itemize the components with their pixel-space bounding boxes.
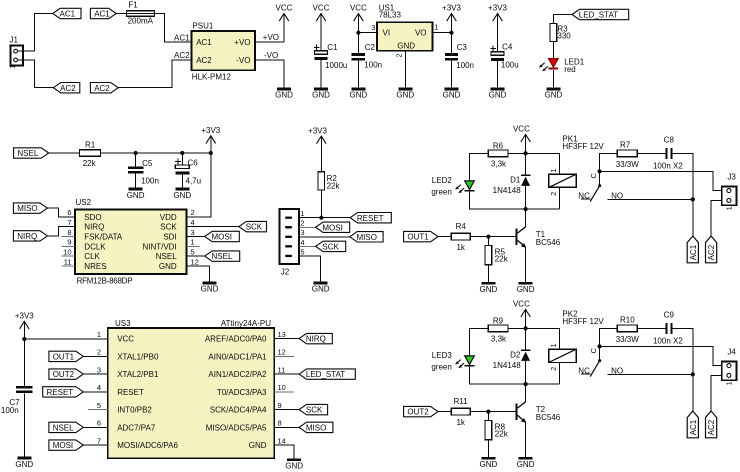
net tag MOSI (US2) (205, 231, 240, 241)
svg-text:R4: R4 (456, 222, 467, 231)
svg-text:AC2: AC2 (707, 419, 716, 435)
resistor R8 (485, 421, 509, 440)
resistor R10 (616, 316, 640, 344)
svg-text:+3V3: +3V3 (15, 312, 34, 321)
svg-text:6: 6 (97, 419, 101, 428)
wire OUT1 to pin2 (83, 355, 108, 357)
node R2-RESET (319, 216, 323, 220)
wire R9 to LED3 (470, 328, 489, 356)
ground (C1) (312, 88, 330, 100)
net tag SCK (US3) (299, 404, 328, 414)
svg-text:3: 3 (191, 228, 195, 237)
svg-text:AC1: AC1 (174, 33, 190, 42)
relay contact C (PK2) (589, 346, 601, 362)
pin 1 (US2 NINT/VDI) (142, 238, 199, 252)
svg-text:RESET: RESET (47, 388, 74, 397)
wire R1 rail (101, 152, 211, 154)
node base-R8 (486, 410, 490, 414)
capacitor C4 (490, 42, 518, 69)
pin 8 (US3 MISO/ADC5/PA5) (206, 419, 282, 433)
wire pin9 to SCK (274, 409, 299, 411)
svg-text:+3V3: +3V3 (201, 126, 220, 135)
diode D2 1N4148 (493, 328, 531, 384)
svg-text:1: 1 (551, 168, 558, 172)
svg-text:C2: C2 (365, 43, 376, 52)
pin 2 (US2 VDD) (160, 208, 195, 222)
svg-text:VO: VO (415, 29, 427, 38)
node VCC junction (356, 31, 360, 35)
svg-text:AC2: AC2 (707, 244, 716, 260)
svg-text:8: 8 (67, 228, 71, 237)
power +3V3 (C4) (488, 4, 507, 52)
svg-text:GND: GND (249, 441, 267, 450)
svg-text:9: 9 (278, 401, 282, 410)
wire J4 pin2 to AC2 (711, 375, 722, 411)
net tag NSEL (US2) (205, 251, 240, 261)
svg-text:MOSI: MOSI (212, 233, 232, 242)
svg-text:NIRQ: NIRQ (84, 223, 104, 232)
svg-text:MISO: MISO (17, 204, 37, 213)
svg-text:PSU1: PSU1 (192, 22, 213, 31)
svg-text:VI: VI (383, 29, 391, 38)
svg-text:-VO: -VO (236, 56, 250, 65)
net tag MISO (US2) (13, 203, 47, 213)
svg-text:22k: 22k (495, 429, 509, 438)
wire R6 to VCC node (508, 152, 525, 154)
svg-text:SCK: SCK (322, 242, 339, 251)
power VCC (C2) (350, 4, 367, 54)
power +3V3 (US3) (15, 312, 34, 339)
wire C6 to GND (181, 174, 183, 187)
svg-text:MOSI: MOSI (322, 223, 342, 232)
wire US1 VO to +3V3 (433, 32, 452, 34)
svg-text:100n X2: 100n X2 (653, 162, 683, 171)
wire coil pin1 (PK2) (526, 328, 560, 349)
capacitor C7 (1, 386, 33, 415)
net label AC2 (174, 51, 190, 60)
node base-R5 (486, 235, 490, 239)
wire NO to AC1 tag (692, 374, 694, 411)
pin 9 (US3 SCK/ADC4/PA4) (210, 401, 282, 415)
ground (C4) (489, 88, 507, 100)
pin 5 (US3 INT0/PB2) (88, 401, 152, 415)
svg-text:C8: C8 (664, 135, 675, 144)
svg-text:VCC: VCC (276, 4, 293, 13)
wire R8 to GND (487, 440, 489, 457)
pin 6 (US2 SDO) (67, 208, 101, 222)
svg-text:4: 4 (300, 238, 304, 247)
LED3 emission arrows (456, 360, 464, 368)
svg-text:VCC: VCC (513, 125, 530, 134)
svg-text:NSEL: NSEL (17, 149, 38, 158)
power module PSU1 HLK-PM12 (192, 22, 256, 82)
svg-text:HF3FF 12V: HF3FF 12V (562, 142, 604, 151)
ground (C6) (173, 188, 191, 200)
svg-text:22k: 22k (495, 254, 509, 263)
svg-text:100n X2: 100n X2 (653, 337, 683, 346)
svg-text:red: red (564, 65, 576, 74)
wire US2 GND to ground (187, 266, 210, 282)
wire VCC to US1 VI (358, 32, 377, 34)
svg-text:XTAL1/PB0: XTAL1/PB0 (117, 352, 159, 361)
svg-text:AIN1/ADC2/PA2: AIN1/ADC2/PA2 (208, 370, 267, 379)
wire R9 to VCC node (508, 327, 525, 329)
node NO-J4 (691, 372, 695, 376)
svg-text:NO: NO (611, 191, 623, 200)
wire common to J4 pin1 (600, 346, 722, 365)
wire NO to AC1 tag (692, 199, 694, 236)
ground (US3) (285, 458, 303, 470)
svg-text:C4: C4 (502, 42, 513, 51)
capacitor C8 (653, 135, 683, 170)
wire F1 to PSU1 AC1 (155, 14, 192, 43)
svg-text:C6: C6 (188, 159, 199, 168)
svg-text:NINT/VDI: NINT/VDI (142, 242, 176, 251)
net tag NIRQ (US3) (299, 333, 332, 343)
svg-text:J3: J3 (727, 172, 736, 181)
svg-text:LED_STAT: LED_STAT (579, 11, 618, 20)
wire AC1 tag to F1 (116, 13, 126, 15)
svg-text:100u: 100u (501, 61, 519, 70)
svg-text:12: 12 (191, 257, 199, 266)
svg-text:5: 5 (300, 247, 304, 256)
wire R5 stem (487, 237, 489, 246)
svg-text:R11: R11 (454, 397, 469, 406)
wire C6 stem (181, 153, 183, 165)
svg-text:8: 8 (278, 419, 282, 428)
IC US2 RFM12B-868DP box (75, 198, 187, 285)
svg-text:AC1: AC1 (94, 10, 110, 19)
wire US2 NSEL to tag (187, 255, 205, 257)
svg-text:MISO: MISO (306, 423, 326, 432)
net tag MOSI (US3) (49, 440, 83, 450)
svg-text:GND: GND (489, 91, 507, 100)
svg-text:RESET: RESET (357, 214, 384, 223)
connector J1 (10, 36, 24, 69)
svg-text:VCC: VCC (513, 300, 530, 309)
pin 2 (US3 XTAL1/PB0) (97, 348, 159, 362)
relay contact NC (PK2) (578, 366, 590, 375)
svg-text:LED3: LED3 (432, 351, 453, 360)
IC US3 ATtiny24A-PU box (108, 319, 274, 458)
svg-text:C3: C3 (457, 43, 468, 52)
pin 3 (US2 SDI) (163, 228, 194, 242)
svg-text:11: 11 (278, 365, 286, 374)
pin 11 (US3 AIN1/ADC2/PA2) (208, 365, 285, 379)
svg-text:7: 7 (97, 436, 101, 445)
svg-text:VCC: VCC (313, 4, 330, 13)
net tag AC1 (left) (53, 8, 81, 18)
svg-text:OUT2: OUT2 (407, 408, 429, 417)
net tag MOSI (J2) (316, 222, 350, 232)
wire J2 pin4 stub (299, 245, 316, 247)
wire NIRQ to US2 NIRQ (47, 227, 75, 236)
svg-text:+3V3: +3V3 (488, 4, 507, 13)
capacitor C9 (653, 310, 683, 345)
svg-text:NO: NO (611, 366, 623, 375)
wire NSEL to R1 (49, 152, 80, 154)
svg-text:GND: GND (159, 262, 177, 271)
wire C3 to GND (451, 61, 453, 88)
svg-text:2: 2 (300, 219, 304, 228)
svg-text:R10: R10 (620, 316, 635, 325)
svg-text:R1: R1 (85, 140, 96, 149)
net tag LED_STAT (top) (572, 9, 629, 19)
node contact common (PK2) (597, 344, 601, 348)
svg-text:GND: GND (312, 91, 330, 100)
wire contact common rail (PK1) (600, 153, 618, 171)
svg-text:SDO: SDO (84, 213, 101, 222)
wire R5 to GND (487, 265, 489, 282)
wire C7 stem (23, 339, 25, 386)
svg-text:GND: GND (173, 191, 191, 200)
pin 1 (J2) (300, 209, 304, 218)
svg-text:GND: GND (127, 191, 145, 200)
net tag NIRQ (US2) (13, 231, 47, 241)
svg-text:C9: C9 (664, 310, 675, 319)
svg-text:1N4148: 1N4148 (493, 186, 522, 195)
wire C2 to GND (357, 61, 359, 88)
node +3V3 junction (449, 31, 453, 35)
power +3V3 (RF rail) (201, 126, 220, 153)
ground (US2) (201, 282, 219, 294)
svg-text:J2: J2 (281, 268, 290, 277)
wire C8 to NO node (673, 153, 693, 199)
pin 9 (US2 DCLK) (61, 238, 106, 252)
capacitor C2 (352, 43, 382, 70)
net tag AC1 (J4) (687, 411, 698, 438)
svg-text:GND: GND (480, 460, 498, 469)
wire R10 to C9 (637, 327, 665, 329)
wire common to J3 pin1 (600, 171, 722, 190)
svg-text:-VO: -VO (264, 51, 278, 60)
resistor R9 (488, 316, 508, 343)
svg-text:D2: D2 (510, 350, 521, 359)
svg-text:C1: C1 (327, 43, 338, 52)
node rail-T2 (524, 382, 528, 386)
svg-text:GND: GND (285, 462, 303, 471)
net tag SCK (US2) (239, 221, 267, 231)
svg-text:OUT1: OUT1 (53, 352, 75, 361)
svg-text:OUT1: OUT1 (407, 233, 429, 242)
node VCC-D1 (524, 151, 528, 155)
wire +3V3 to US2 VDD (187, 153, 211, 217)
wire coil pin2 (PK2) (559, 362, 561, 384)
svg-text:10: 10 (63, 248, 71, 257)
svg-text:10: 10 (278, 383, 286, 392)
svg-text:CLK: CLK (84, 252, 100, 261)
svg-text:AC1: AC1 (196, 38, 212, 47)
LED2 emission arrows (456, 185, 464, 193)
pin 4 (J2) (300, 238, 304, 247)
power VCC (T2 section) (513, 300, 530, 329)
svg-text:VCC: VCC (117, 335, 134, 344)
svg-text:SCK/ADC4/PA4: SCK/ADC4/PA4 (210, 406, 267, 415)
svg-text:R6: R6 (493, 141, 504, 150)
pin 6 (US3 ADC7/PA7) (97, 419, 156, 433)
wire J2 pin5 to GND (299, 256, 321, 282)
svg-text:1N4148: 1N4148 (493, 361, 522, 370)
svg-text:1: 1 (97, 330, 101, 339)
wire J2 pin3 to MISO (299, 236, 350, 238)
transistor T2 BC546 (516, 402, 561, 423)
wire pin11 to LED_STAT (274, 373, 299, 375)
wire R7 to C8 (637, 152, 665, 154)
pin 3 (US1 VI) (371, 23, 375, 32)
node NO-J3 (691, 197, 695, 201)
svg-text:GND: GND (201, 285, 219, 294)
wire US3 GND to ground (274, 445, 294, 458)
svg-text:C: C (589, 348, 598, 354)
svg-text:NRES: NRES (84, 262, 106, 271)
svg-text:SDI: SDI (163, 233, 176, 242)
net label +VO (263, 33, 279, 42)
relay contact arm (PK2) (590, 361, 600, 377)
wire T1 collector (525, 209, 527, 227)
svg-text:SCK: SCK (160, 223, 177, 232)
LED1 emission arrows (539, 63, 547, 71)
svg-text:R9: R9 (493, 316, 504, 325)
net tag AC2 (J3) (706, 236, 717, 263)
svg-text:GND: GND (312, 285, 330, 294)
svg-text:BC546: BC546 (536, 413, 561, 422)
ground (T1) (517, 282, 535, 294)
relay contact NO (PK1) (607, 191, 692, 200)
svg-text:22k: 22k (327, 182, 341, 191)
svg-text:1: 1 (727, 381, 734, 385)
pin 1 (US3 VCC) (97, 330, 134, 344)
svg-text:ADC7/PA7: ADC7/PA7 (117, 423, 156, 432)
svg-text:+VO: +VO (234, 38, 250, 47)
svg-text:OUT2: OUT2 (53, 370, 75, 379)
net tag AC1 (J3) (687, 236, 698, 263)
svg-text:1: 1 (300, 209, 304, 218)
svg-text:2: 2 (191, 208, 195, 217)
svg-text:INT0/PB2: INT0/PB2 (117, 406, 152, 415)
wire OUT1 to R4 (438, 236, 451, 238)
svg-text:MISO: MISO (357, 233, 377, 242)
pin 7 (US2 NIRQ) (67, 218, 104, 232)
power +3V3 (C3) (442, 4, 461, 54)
power VCC (T1 section) (513, 125, 530, 154)
node contact common (PK1) (597, 169, 601, 173)
relay contact C (PK1) (589, 171, 601, 187)
wire +3V3 to US3 VCC (24, 338, 108, 340)
svg-text:100n: 100n (1, 406, 19, 415)
svg-text:HF3FF 12V: HF3FF 12V (562, 317, 604, 326)
pin 2 (J2) (300, 219, 304, 228)
svg-text:BC546: BC546 (536, 238, 561, 247)
svg-text:6: 6 (67, 208, 71, 217)
net tag OUT2 (404, 406, 438, 416)
relay contact arm (PK1) (590, 186, 600, 202)
pin 1 (US1 VO) (434, 22, 438, 31)
net tag LED_STAT (US3) (299, 369, 355, 379)
svg-text:AC2: AC2 (174, 51, 190, 60)
svg-text:green: green (431, 362, 451, 371)
svg-text:33/3W: 33/3W (616, 335, 640, 344)
wire contact common rail (PK2) (600, 328, 618, 346)
svg-text:FSK/DATA: FSK/DATA (84, 233, 123, 242)
svg-text:GND: GND (15, 460, 33, 469)
wire C9 to NO node (673, 328, 693, 374)
ground (US1) (396, 88, 414, 100)
capacitor C3 (445, 43, 474, 70)
svg-text:AC1: AC1 (60, 10, 76, 19)
svg-text:+3V3: +3V3 (308, 126, 327, 135)
regulator US1 78L33 (377, 4, 433, 51)
ground (C5) (127, 188, 145, 200)
svg-text:2: 2 (97, 348, 101, 357)
svg-text:VCC: VCC (350, 4, 367, 13)
wire OUT2 to pin3 (83, 373, 108, 375)
wire US1 GND to ground (404, 51, 406, 88)
pin 12 (US3 AIN0/ADC1/PA1) (208, 348, 294, 362)
connector J4 (722, 347, 737, 385)
pin 5 (US2 NSEL) (156, 248, 195, 262)
net tag MISO (US3) (299, 422, 333, 432)
wire coil pin1 (PK1) (526, 153, 560, 174)
svg-text:VDD: VDD (160, 213, 177, 222)
resistor R1 (80, 140, 101, 168)
svg-text:GND: GND (517, 460, 535, 469)
ground (T2) (517, 457, 535, 469)
net tag OUT2 (US3) (49, 369, 83, 379)
svg-text:1: 1 (10, 65, 17, 69)
svg-text:100n: 100n (456, 61, 474, 70)
LED LED1 red (549, 57, 585, 73)
wire C4 to GND (497, 61, 499, 87)
power VCC (PSU) (276, 4, 293, 42)
svg-text:AC2: AC2 (60, 84, 76, 93)
node rail-3V3 (209, 151, 213, 155)
wire C1 to GND (320, 60, 322, 88)
net tag OUT1 (404, 231, 438, 241)
svg-text:13: 13 (278, 330, 286, 339)
svg-text:100n: 100n (141, 176, 159, 185)
svg-text:SCK: SCK (246, 223, 263, 232)
pin 4 (US3 RESET) (97, 383, 144, 397)
resistor R3 (550, 24, 571, 42)
ground (J2) (312, 282, 330, 294)
power VCC (C1) (313, 4, 330, 51)
svg-text:MOSI: MOSI (53, 441, 73, 450)
ground (C7) (15, 457, 33, 469)
resistor R7 (616, 141, 640, 169)
wire LED3 to rail (470, 366, 560, 384)
net tag AC1 (to fuse) (90, 8, 116, 18)
svg-text:1k: 1k (456, 418, 465, 427)
wire RESET to pin4 (83, 391, 108, 393)
node VCC-D2 (524, 326, 528, 330)
svg-text:F1: F1 (128, 1, 138, 10)
wire pin13 to NIRQ (274, 338, 299, 340)
svg-text:US2: US2 (76, 198, 92, 207)
svg-text:D1: D1 (510, 175, 521, 184)
svg-text:AC2: AC2 (94, 84, 110, 93)
svg-text:GND: GND (397, 41, 415, 50)
pin 11 (US2 NRES) (61, 257, 106, 271)
svg-text:22k: 22k (83, 159, 97, 168)
resistor R11 (451, 397, 470, 427)
ground (R5) (480, 282, 498, 294)
svg-text:C: C (589, 173, 598, 179)
capacitor C6 (175, 159, 201, 186)
node +3V3/C7 (22, 337, 26, 341)
pin 14 (US3 GND) (249, 436, 286, 450)
pin 4 (US2 SCK) (160, 218, 194, 232)
svg-text:2: 2 (551, 367, 558, 371)
